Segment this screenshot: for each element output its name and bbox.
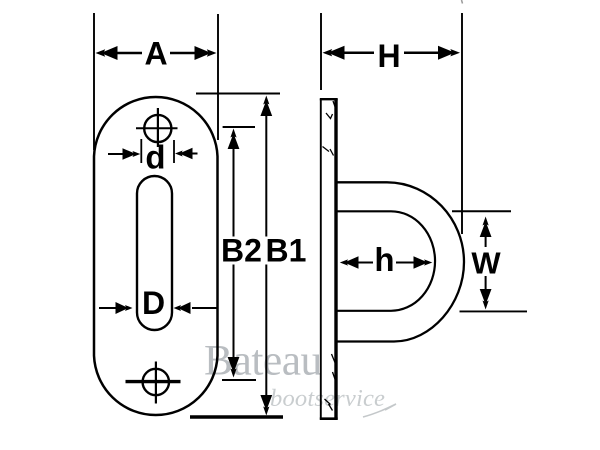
- dimension A extension line right: [217, 14, 219, 140]
- stray mark top: [462, 0, 463, 4]
- dimension H extension line right: [461, 13, 463, 234]
- dimension W line with arrows: [469, 217, 503, 310]
- bottom hole: [143, 369, 169, 395]
- B2 top extension line: [223, 126, 255, 128]
- svg-text:bootservice: bootservice: [270, 385, 385, 412]
- top hole crosshair: [136, 127, 178, 129]
- eye loop outer line: [337, 182, 464, 341]
- dimension D arrows: [99, 302, 217, 314]
- slot: [137, 176, 172, 330]
- svg-text:H: H: [377, 38, 400, 74]
- dimension H extension line left: [320, 13, 322, 90]
- svg-text:W: W: [471, 246, 501, 281]
- side plate hatch marks: [323, 101, 337, 411]
- dimension B1 line with arrows: [260, 96, 272, 416]
- W bottom extension line: [460, 310, 528, 312]
- top hole: [144, 115, 171, 142]
- svg-text:B2: B2: [221, 233, 262, 269]
- watermark swoosh: [363, 404, 396, 417]
- B2 bottom extension line: [222, 379, 256, 381]
- dimension A line with arrows: [96, 38, 217, 68]
- dimension h arrows: [340, 256, 433, 268]
- svg-text:d: d: [145, 139, 165, 176]
- svg-text:h: h: [374, 241, 394, 278]
- W top extension line: [452, 210, 511, 212]
- B1 bottom extension line: [190, 415, 283, 418]
- dimension A extension line left: [93, 13, 95, 150]
- label B2: [219, 233, 263, 269]
- B1 top extension line: [196, 93, 280, 95]
- dimension B2 line with arrows: [228, 129, 240, 378]
- svg-text:A: A: [144, 36, 167, 72]
- bottom hole crosshair: [126, 380, 181, 383]
- eye loop inner line: [337, 211, 436, 310]
- svg-text:D: D: [142, 285, 165, 321]
- dimension d arrows: [108, 148, 198, 160]
- svg-text:Bateau: Bateau: [204, 337, 322, 385]
- dimension H line with arrows: [323, 39, 461, 69]
- svg-text:B1: B1: [266, 233, 307, 269]
- side plate (side view): [320, 99, 322, 420]
- plate outline (front view): [94, 97, 218, 415]
- dimension d ticks: [140, 139, 142, 163]
- label B1: [265, 233, 308, 269]
